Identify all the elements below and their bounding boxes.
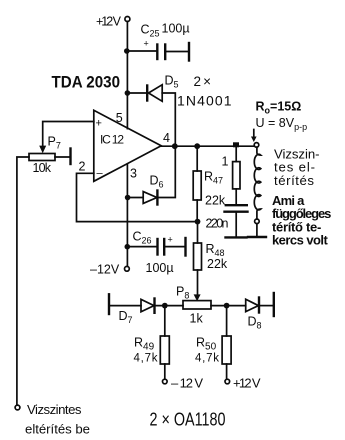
svg-text:kercs volt: kercs volt — [272, 232, 328, 247]
svg-text:Ro=15Ω: Ro=15Ω — [256, 100, 302, 116]
wire + input to P7 wiper — [43, 122, 94, 147]
wire to D5 cathode — [127, 92, 147, 94]
label Ami a fuggoleges terito tekercs volt (bold) — [272, 193, 331, 247]
node feedback/divider junction — [195, 219, 201, 225]
svg-text:C26: C26 — [133, 230, 152, 246]
svg-text:220n: 220n — [206, 217, 229, 231]
svg-text:TDA 2030: TDA 2030 — [52, 73, 121, 92]
resistor R48 22k — [194, 222, 202, 296]
inductor L deflection coil — [254, 147, 260, 219]
svg-text:R47: R47 — [204, 170, 223, 186]
svg-text:2: 2 — [79, 160, 86, 174]
terminal bar (bottom rail right) — [273, 293, 275, 316]
wire coil bottom — [256, 224, 258, 236]
node C26 junction — [125, 244, 131, 250]
-12V supply terminal (op-amp) — [125, 266, 130, 271]
op-amp U1 IC12 TDA2030 — [94, 110, 161, 181]
wire output (pin 4) — [161, 145, 254, 147]
resistor R47 22k — [193, 146, 201, 221]
svg-text:C25: C25 — [141, 23, 160, 39]
svg-text:IC 12: IC 12 — [100, 133, 124, 147]
capacitor C25 100u — [144, 39, 166, 60]
svg-text:P7: P7 — [48, 135, 61, 151]
svg-text:2 × OA1180: 2 × OA1180 — [150, 410, 226, 430]
svg-text:U = 8Vp-p: U = 8Vp-p — [256, 116, 308, 132]
svg-text:eltérítés be: eltérítés be — [25, 421, 90, 436]
-12V terminal (R49) — [163, 379, 168, 384]
wire pin 3 rail down to -12V — [126, 164, 128, 266]
wire D5 anode to output branch — [162, 93, 175, 146]
svg-text:22k: 22k — [205, 194, 226, 208]
svg-text:P8: P8 — [176, 285, 189, 301]
svg-text:+12 V: +12 V — [233, 376, 261, 391]
label Vizszintes eltérítés be — [25, 402, 90, 436]
node D5 junction — [125, 90, 131, 96]
svg-text:4,7k: 4,7k — [134, 353, 158, 365]
wire to C25 — [127, 50, 157, 52]
coil bottom open terminal — [255, 219, 260, 224]
wire D7 to P8 — [155, 305, 184, 307]
svg-text:térítés: térítés — [274, 173, 314, 188]
svg-text:4,7k: 4,7k — [195, 353, 219, 365]
svg-text:D8: D8 — [248, 315, 262, 331]
label Vizszintes elteres (right) — [274, 147, 320, 188]
node 1-ohm top junction — [233, 142, 239, 147]
svg-text:+: + — [144, 39, 149, 49]
arrow to output terminal — [251, 130, 257, 143]
diode D7 — [141, 299, 155, 313]
resistor R50 4,7k — [222, 306, 231, 380]
output open terminal — [254, 143, 259, 148]
svg-text:+12 V: +12 V — [96, 15, 122, 29]
terminal bar (bottom rail left) — [108, 294, 110, 314]
terminal bar (coil bottom) — [248, 236, 266, 238]
svg-text:+: + — [96, 118, 102, 130]
wire left bar to D7 — [109, 305, 141, 307]
svg-text:D6: D6 — [150, 174, 164, 190]
diode D8 — [246, 298, 259, 313]
svg-text:100µ: 100µ — [162, 22, 190, 36]
potentiometer P7 wiper arrow — [39, 146, 46, 154]
svg-text:R48: R48 — [206, 242, 225, 258]
diode D6 — [143, 191, 157, 205]
terminal bar (220n bottom) — [226, 236, 247, 238]
svg-text:D7: D7 — [119, 309, 133, 325]
svg-text:2×: 2× — [194, 74, 212, 89]
svg-text:22k: 22k — [207, 257, 228, 271]
potentiometer P8 1k — [183, 301, 211, 309]
node output junction (D5/D6 branch) — [172, 143, 178, 149]
wire C25 to terminal bar — [165, 51, 188, 53]
svg-text:5: 5 — [116, 111, 123, 125]
terminal bar (C26 right) — [184, 238, 186, 256]
node D8/R50 junction — [224, 303, 230, 309]
terminal bar (P7 right) — [69, 149, 71, 165]
svg-text:–: – — [97, 168, 104, 180]
+12V supply terminal — [125, 17, 130, 22]
input open terminal (bottom left) — [15, 405, 20, 410]
svg-text:1k: 1k — [190, 312, 204, 326]
svg-text:100µ: 100µ — [146, 261, 174, 275]
svg-text:Vizszintes: Vizszintes — [27, 402, 82, 417]
wire to C26 — [127, 246, 156, 248]
node R47 top junction — [194, 143, 200, 149]
svg-text:D5: D5 — [165, 74, 179, 90]
svg-text:10k: 10k — [33, 161, 52, 175]
svg-text:R49: R49 — [134, 336, 155, 353]
diode D5 — [147, 85, 162, 102]
potentiometer P7 10k — [29, 154, 55, 161]
svg-text:– 12 V: – 12 V — [171, 376, 203, 391]
wire P7 right lead — [55, 156, 70, 158]
wire P8 to D8 — [211, 305, 246, 307]
capacitor C26 100u — [158, 235, 173, 255]
svg-text:+: + — [168, 235, 173, 245]
+12V terminal (R50) — [225, 379, 230, 384]
wire pin 2 feedback — [77, 173, 198, 221]
node C25 junction — [124, 48, 130, 54]
wire to D6 — [128, 197, 143, 199]
svg-text:4: 4 — [163, 131, 170, 145]
svg-text:1N4001: 1N4001 — [177, 93, 232, 109]
capacitor 220n — [225, 205, 248, 236]
wire C26 to terminal bar — [164, 246, 184, 248]
wire +12V rail down to pin 5 — [126, 22, 128, 129]
wire P7 left lead down to input terminal — [17, 157, 29, 405]
svg-text:R50: R50 — [196, 336, 217, 353]
resistor 1 ohm — [233, 146, 240, 204]
wire D6 cathode up to output — [157, 148, 175, 198]
node D7/R49 junction — [162, 303, 168, 309]
terminal bar (C25 right) — [188, 43, 190, 61]
wire D8 to right bar — [259, 305, 273, 307]
svg-text:–12V: –12V — [90, 263, 120, 277]
potentiometer P8 wiper arrow — [194, 294, 201, 301]
svg-text:3: 3 — [130, 167, 137, 181]
svg-text:1: 1 — [222, 155, 229, 169]
resistor R49 4,7k — [160, 306, 169, 380]
node D6 junction — [125, 195, 131, 201]
